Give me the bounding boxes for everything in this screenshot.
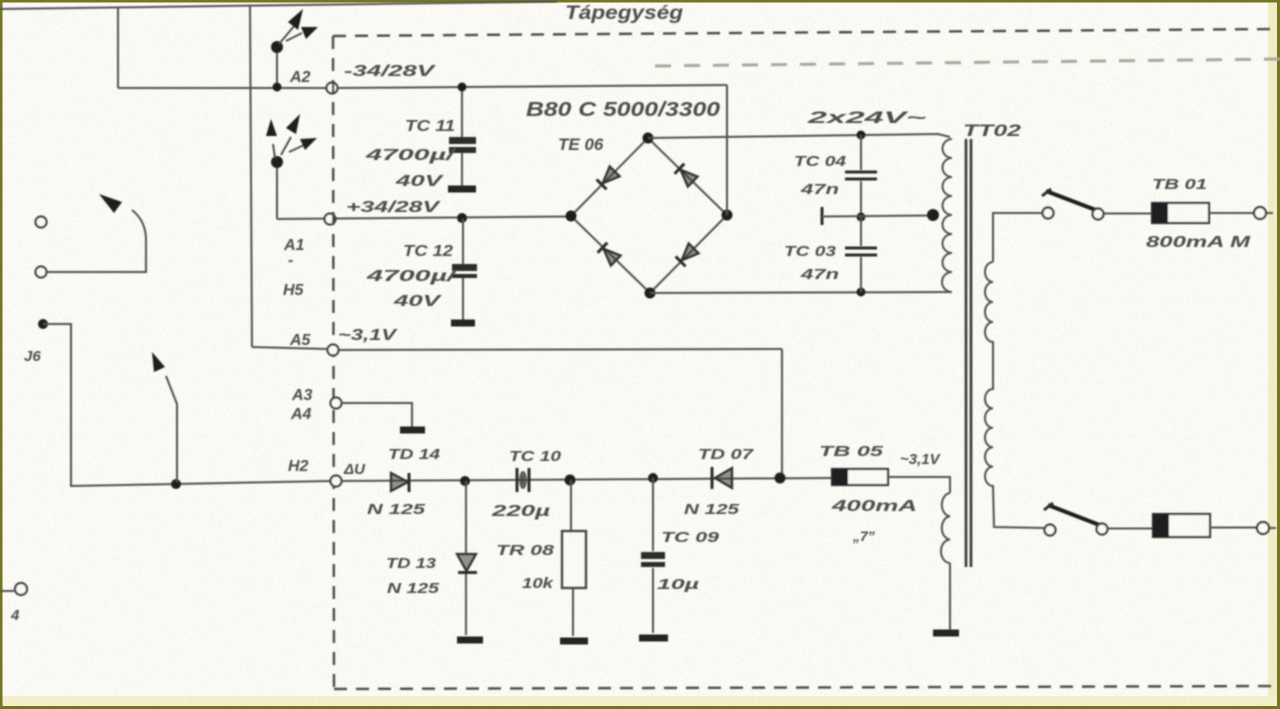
capacitor TC12 bottom plate bar — [451, 320, 475, 327]
switch blade upper output — [1046, 191, 1101, 212]
wire secondary upper tap — [993, 213, 1043, 262]
fuse TB01 — [1152, 203, 1209, 223]
winding secondary upper right of core — [985, 262, 1044, 528]
ground TC09 — [639, 635, 668, 642]
capacitor TC03 stems — [860, 217, 862, 292]
wire fuse TB05 to 3.1V winding — [888, 477, 950, 493]
capacitor TC12 plates — [452, 264, 477, 271]
node arrow cluster top — [271, 41, 283, 53]
wire -34/28V feed to A2 — [118, 87, 327, 89]
capacitor TC09 plates — [641, 552, 665, 559]
switch wiper arrow lower — [166, 376, 177, 482]
switch contact lower output left — [1045, 525, 1056, 536]
winding 3.1V left of core — [941, 493, 950, 563]
capacitor TC03 plates — [845, 248, 877, 255]
terminal A3 A4 — [331, 398, 342, 409]
ground 3.1V winding — [933, 630, 959, 637]
capacitor TC11 plates — [449, 137, 476, 144]
ground A3/A4 stub — [400, 427, 425, 434]
scan artifact dash row — [655, 59, 1280, 66]
dashed boundary bottom of Tapegyseg block — [334, 686, 1278, 689]
fuse lower output — [1153, 514, 1210, 537]
dashed boundary top of Tapegyseg block — [333, 29, 1277, 36]
junction TD13 — [460, 476, 470, 486]
wire mains top edge — [0, 2, 557, 10]
junction TC09 — [648, 473, 658, 483]
node bridge bottom vertex — [645, 288, 656, 299]
wire J6 to H2 rail — [43, 324, 331, 486]
terminal A2 — [327, 83, 338, 94]
terminal A5 — [328, 345, 339, 356]
junction TC11 top — [458, 83, 467, 92]
wire stub terminal upper — [1266, 212, 1273, 214]
diode TD13 vertical — [465, 481, 467, 635]
dashed boundary left of Tapegyseg block — [333, 36, 334, 688]
arrow to other sheet 5 — [289, 145, 304, 152]
wire bridge AC top to winding — [648, 134, 950, 138]
node bridge right vertex — [722, 210, 733, 221]
junction AC top — [857, 131, 866, 140]
wire stub terminal lower — [1269, 527, 1276, 529]
switch wiper arrow upper — [132, 210, 146, 240]
switch contact upper — [36, 217, 47, 228]
capacitor TC11 bottom plate bar — [448, 186, 476, 193]
capacitor TC11 stem — [461, 87, 463, 186]
capacitor TC04 plates — [845, 172, 877, 179]
switch blade lower output — [1048, 505, 1102, 526]
diode bridge bottom-right — [676, 243, 699, 266]
bridge rectifier TE06 diamond — [571, 138, 727, 293]
wire drop at x=118 — [117, 7, 119, 88]
switch contact lower output right — [1097, 524, 1108, 535]
node bridge left vertex — [566, 211, 577, 222]
diode TD07 — [715, 468, 732, 488]
ground TD13 — [457, 637, 483, 644]
junction A5 drop — [775, 473, 786, 484]
diode bridge top-right — [675, 164, 698, 187]
winding 2x24V left of core — [942, 139, 952, 292]
junction switch wiper lower — [171, 479, 181, 489]
terminal H2 — [331, 476, 342, 487]
junction rail at TC11/TC12 — [457, 213, 467, 223]
wire switch to fuse lower — [1108, 528, 1153, 530]
wire switch wiper feed — [46, 240, 146, 272]
junction TR08 — [565, 475, 576, 486]
wire A3/A4 stub — [342, 403, 412, 427]
wire +34/28V rail — [277, 217, 571, 220]
switch contact upper output right — [1093, 209, 1104, 220]
wire H2 rail — [342, 478, 832, 481]
switch contact lower with wire — [36, 267, 47, 278]
ground TR08 — [560, 638, 588, 645]
node winding center tap — [927, 209, 939, 221]
junction AC bottom — [857, 288, 866, 297]
terminal 4 — [15, 583, 27, 595]
wire fuse lower to terminal — [1210, 527, 1257, 529]
diode TD14 — [391, 473, 408, 491]
capacitor TC10 in line — [517, 468, 529, 492]
capacitor TC04 stems — [860, 135, 862, 216]
diode bridge bottom-left — [598, 243, 621, 266]
arrow to other sheet 3 — [273, 144, 275, 158]
capacitor TC12 stem — [462, 219, 464, 320]
wire bridge minus drop — [726, 85, 728, 215]
junction center tap line — [857, 213, 866, 222]
transformer TT02 core — [966, 139, 971, 567]
junction on -34/28V rail — [273, 83, 282, 92]
fuse TB05 — [832, 469, 888, 485]
switch contact upper output left — [1043, 208, 1054, 219]
terminal A1-H5 — [325, 214, 336, 225]
wire switch to fuse TB01 — [1104, 213, 1152, 215]
resistor TR08 — [571, 480, 573, 636]
terminal output upper — [1254, 207, 1266, 219]
wire stub to arrow node A2 — [276, 47, 278, 87]
wire center tap with end bar — [821, 207, 824, 225]
wire bridge AC bottom to winding — [650, 292, 952, 293]
arrow to other sheet 4 — [281, 137, 291, 155]
wire A5 drop to H2 rail — [781, 349, 783, 474]
wire -34/28V rail — [338, 85, 727, 88]
capacitor TC09 stems — [652, 478, 654, 633]
diode bridge top-left — [597, 166, 620, 189]
terminal output lower — [1257, 522, 1269, 534]
arrow to other sheet 1 — [279, 25, 295, 44]
wire A5 rail — [252, 347, 782, 350]
wire 3.1V winding to ground — [949, 563, 951, 630]
wire fuse TB01 to terminal — [1209, 212, 1254, 214]
terminal 4 wire stub — [0, 590, 14, 592]
arrow to other sheet 2 — [286, 33, 302, 41]
terminal J6 — [38, 319, 48, 329]
node arrow cluster middle — [271, 156, 283, 168]
wire long trunk to A5 — [250, 5, 252, 347]
wire drop from arrow node to +rail — [276, 162, 278, 219]
node bridge top vertex — [643, 133, 654, 144]
